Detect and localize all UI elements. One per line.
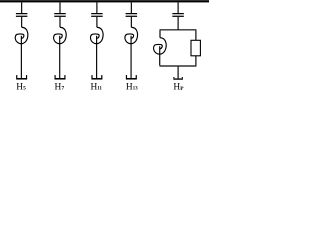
svg-text:5: 5 (23, 86, 26, 91)
svg-text:13: 13 (133, 87, 138, 91)
svg-text:11: 11 (97, 87, 102, 91)
svg-text:7: 7 (61, 86, 64, 91)
